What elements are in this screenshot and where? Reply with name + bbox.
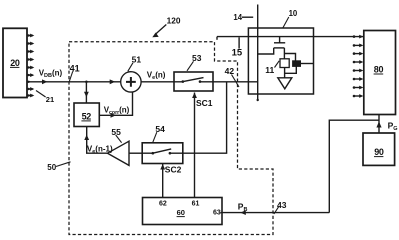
svg-text:41: 41 bbox=[70, 63, 80, 73]
svg-text:62: 62 bbox=[159, 201, 167, 208]
svg-text:PB: PB bbox=[238, 201, 248, 213]
svg-text:54: 54 bbox=[155, 124, 165, 134]
svg-text:SC2: SC2 bbox=[165, 164, 182, 174]
svg-text:43: 43 bbox=[277, 200, 287, 210]
svg-text:Vcorr(n): Vcorr(n) bbox=[104, 105, 130, 116]
svg-text:10: 10 bbox=[289, 9, 298, 18]
svg-text:80: 80 bbox=[374, 64, 384, 74]
svg-text:VDB(n): VDB(n) bbox=[39, 68, 63, 79]
svg-text:Ve(n): Ve(n) bbox=[147, 71, 166, 82]
svg-text:42: 42 bbox=[225, 66, 235, 76]
svg-text:15: 15 bbox=[232, 48, 243, 59]
svg-text:63: 63 bbox=[213, 209, 221, 216]
svg-text:Ve(n-1): Ve(n-1) bbox=[87, 144, 113, 155]
svg-text:60: 60 bbox=[177, 208, 185, 217]
svg-text:SC1: SC1 bbox=[196, 98, 213, 108]
svg-text:51: 51 bbox=[132, 55, 142, 65]
svg-text:21: 21 bbox=[46, 95, 54, 104]
svg-text:14: 14 bbox=[233, 13, 242, 22]
svg-text:50: 50 bbox=[47, 163, 56, 172]
svg-text:55: 55 bbox=[111, 127, 121, 137]
svg-text:PG: PG bbox=[388, 120, 398, 132]
svg-text:53: 53 bbox=[192, 53, 202, 63]
svg-text:11: 11 bbox=[265, 65, 274, 75]
svg-text:52: 52 bbox=[82, 111, 92, 121]
svg-text:120: 120 bbox=[167, 15, 181, 25]
svg-text:61: 61 bbox=[192, 201, 200, 208]
svg-text:90: 90 bbox=[374, 147, 384, 157]
svg-text:20: 20 bbox=[10, 58, 20, 68]
